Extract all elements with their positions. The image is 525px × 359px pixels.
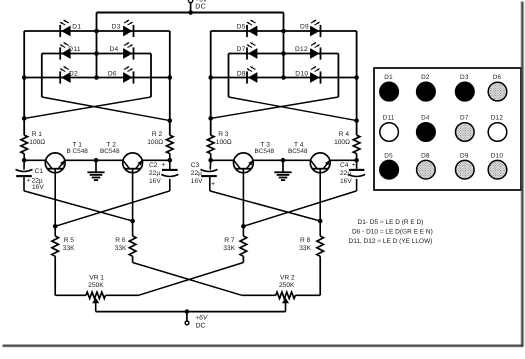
wire R7 to VR1 diagonal: [139, 263, 244, 296]
wire C4 to T3 base diagonal: [243, 191, 356, 226]
svg-text:D6: D6: [108, 70, 117, 77]
transistor T4 BC548: [288, 141, 330, 172]
wire T1 emitter to ground node: [65, 159, 123, 161]
capacitor C3 22u 16V: [191, 162, 218, 188]
LED D3: [112, 20, 134, 37]
resistor R8 33K: [299, 236, 323, 256]
svg-text:100Ω: 100Ω: [147, 139, 163, 146]
wire R3 bottom to main row: [210, 154, 212, 161]
legend LED dot D5: [380, 152, 399, 179]
svg-text:D6 - D10 = LE D(GR E E N): D6 - D10 = LE D(GR E E N): [352, 228, 433, 235]
wire D1-D3 row (left block row 1): [24, 30, 170, 32]
svg-text:100Ω: 100Ω: [216, 139, 232, 146]
junction top rail / DC terminal: [188, 10, 193, 15]
wire R6 bottom stub: [132, 256, 134, 262]
junction right bus row 3: [281, 75, 286, 80]
junction diagonal / right outer vertical: [168, 118, 173, 123]
wire R4 bottom to main row: [356, 154, 358, 161]
wire T4 to right node (right half): [330, 159, 357, 161]
frame right edge: [521, 2, 524, 347]
svg-text:R 6: R 6: [115, 237, 126, 244]
svg-text:+: +: [211, 181, 215, 188]
wire D8-D10 row (right block row 3): [211, 77, 357, 79]
svg-text:D11, D12 = LE D (YE LLOW): D11, D12 = LE D (YE LLOW): [349, 238, 433, 245]
LED D6: [108, 67, 134, 84]
svg-text:16V: 16V: [32, 184, 44, 191]
svg-text:D1: D1: [384, 74, 393, 81]
legend LED dot D3: [456, 74, 475, 101]
svg-text:D2: D2: [421, 74, 430, 81]
junction C3 diagonal / T4 base: [318, 219, 323, 224]
svg-text:D2: D2: [69, 70, 78, 77]
wire cross diagonal (right block) inner-right to outer-left: [211, 97, 339, 118]
svg-text:R 5: R 5: [64, 237, 75, 244]
svg-text:VR 1: VR 1: [89, 274, 104, 281]
wire R8 bottom to VR2 row: [319, 256, 321, 295]
junction left bus row 3: [94, 75, 99, 80]
svg-text:D9: D9: [300, 23, 309, 30]
svg-text:33K: 33K: [299, 245, 311, 252]
transistor T2 BC548: [100, 141, 143, 172]
svg-text:16V: 16V: [340, 178, 352, 185]
wire C3 bottom lead: [209, 176, 211, 191]
junction C4 diagonal / T3 base: [241, 224, 246, 229]
wire cross diagonal right-inner to left-outer: [24, 97, 151, 118]
svg-text:D1: D1: [72, 23, 81, 30]
wire left inner vertical (row2 left): [41, 54, 43, 98]
legend LED dot D7: [456, 115, 475, 142]
svg-text:100Ω: 100Ω: [334, 139, 350, 146]
wire R1 bottom to main row: [23, 154, 25, 161]
legend LED dot D11: [380, 115, 399, 142]
svg-text:250K: 250K: [88, 282, 104, 289]
junction left bus row 2: [94, 51, 99, 56]
ground symbol (left): [87, 160, 104, 180]
junction right bus row 2: [281, 51, 286, 56]
resistor R4 100 ohm: [334, 131, 360, 153]
potentiometer VR2 250K: [276, 274, 296, 311]
wire C2 bottom lead: [169, 179, 171, 191]
wire VR1 left lead: [55, 294, 86, 296]
wire right-block right outer vertical (row1 to R4): [356, 31, 358, 135]
junction C2 diagonal / T1 base: [53, 224, 58, 229]
junction R1 / C1 / T1 collector: [22, 158, 27, 163]
svg-text:BC548: BC548: [255, 148, 275, 155]
resistor R6 33K: [115, 236, 136, 256]
LED D8: [237, 67, 258, 84]
junction right bus row 1: [281, 29, 286, 34]
wire R2 bottom to main row: [169, 154, 171, 161]
junction diagonal / right-block outer-left: [208, 116, 213, 121]
junction right-block left outer / row 3: [208, 75, 213, 80]
legend LED dot D12: [488, 115, 507, 142]
svg-text:+6V: +6V: [195, 314, 208, 321]
svg-text:D9: D9: [460, 152, 469, 159]
junction R3 / C3 / T3 collector: [208, 158, 213, 163]
LED D5: [237, 20, 258, 37]
wire right block centre bus: [283, 13, 285, 78]
svg-text:D3: D3: [460, 74, 469, 81]
svg-text:22µ: 22µ: [340, 170, 351, 177]
wire T4 base lead down to R8: [319, 169, 321, 236]
junction left bus row 1: [94, 29, 99, 34]
svg-text:D12: D12: [295, 46, 308, 53]
svg-text:C1: C1: [35, 168, 44, 175]
legend LED dot D9: [456, 152, 475, 179]
svg-text:+: +: [352, 162, 356, 169]
svg-text:33K: 33K: [223, 245, 235, 252]
junction R2 / C2 / T2: [168, 158, 173, 163]
svg-text:D8: D8: [237, 70, 246, 77]
svg-text:22µ: 22µ: [149, 170, 160, 177]
svg-text:16V: 16V: [149, 178, 161, 185]
junction ground (right): [281, 158, 286, 163]
svg-text:D6: D6: [493, 74, 502, 81]
wire C1 top lead: [23, 160, 25, 169]
wire VR2 wiper to supply junction: [187, 311, 286, 313]
svg-text:R 4: R 4: [339, 131, 350, 138]
wire cross diagonal left-inner to right-outer: [42, 97, 170, 121]
wire T1 collector to left node: [24, 159, 46, 161]
svg-text:250K: 250K: [279, 282, 295, 289]
legend LED dot D8: [417, 152, 436, 179]
junction diagonal / right-block outer-right: [354, 118, 359, 123]
LED D11: [60, 43, 81, 60]
svg-text:D5: D5: [237, 23, 246, 30]
svg-text:C4: C4: [340, 162, 349, 169]
wire C2 to T1 base diagonal: [55, 191, 170, 226]
wire T3 base lead down to R7: [242, 169, 244, 236]
legend LED dot D1: [380, 74, 399, 101]
svg-text:D12: D12: [491, 115, 504, 122]
LED D4: [109, 43, 133, 60]
svg-text:D1- D5 = LE D (R E D): D1- D5 = LE D (R E D): [358, 219, 424, 226]
wire cross diagonal (right block) inner-left to outer-right: [229, 97, 357, 121]
resistor R7 33K: [223, 236, 246, 256]
wire R7 bottom stub: [242, 256, 244, 262]
svg-text:16V: 16V: [191, 178, 203, 185]
svg-text:R 3: R 3: [218, 131, 229, 138]
junction C1 diagonal / T2 base: [130, 219, 135, 224]
junction left outer / row 3: [22, 75, 27, 80]
svg-text:D7: D7: [460, 115, 469, 122]
svg-text:D10: D10: [491, 152, 504, 159]
svg-text:33K: 33K: [115, 245, 127, 252]
LED D2: [60, 67, 78, 84]
svg-text:R 8: R 8: [300, 237, 311, 244]
capacitor C1 22u 16V: [16, 168, 45, 191]
svg-text:D7: D7: [237, 46, 246, 53]
wire T3 emitter to ground node (right half): [253, 159, 311, 161]
wire C1 bottom lead: [23, 176, 25, 191]
wire R6 to VR2 diagonal: [133, 263, 242, 296]
svg-text:D10: D10: [295, 70, 308, 77]
wire D5-D9 row (right block row 1): [211, 30, 357, 32]
legend LED dot D2: [417, 74, 436, 101]
power terminal +6V DC (bottom): [185, 312, 208, 330]
svg-text:DC: DC: [196, 323, 206, 330]
svg-text:33K: 33K: [63, 245, 75, 252]
svg-text:D11: D11: [68, 46, 81, 53]
svg-text:D4: D4: [109, 46, 118, 53]
legend LED dot D6: [488, 74, 507, 101]
junction right outer / row 3: [168, 75, 173, 80]
resistor R2 100 ohm: [147, 131, 173, 153]
wire C4 bottom lead: [356, 179, 358, 191]
svg-text:D3: D3: [112, 23, 121, 30]
wire VR2 left lead: [242, 294, 276, 296]
wire C3 top lead: [209, 160, 212, 169]
junction right-block right outer / row 3: [354, 75, 359, 80]
LED D12: [295, 43, 321, 60]
wire right inner vertical (row2 right): [150, 54, 152, 98]
svg-text:R 2: R 2: [152, 131, 163, 138]
legend LED dot D10: [488, 152, 507, 179]
ground symbol (right): [274, 160, 291, 180]
capacitor C4 22u 16V: [340, 162, 365, 185]
frame bottom edge: [3, 345, 524, 347]
legend LED dot D4: [417, 115, 436, 142]
transistor T3 BC548: [234, 141, 275, 172]
svg-text:BC548: BC548: [100, 148, 120, 155]
wire D11-D4 row (left block row 2): [42, 53, 151, 55]
wire T3 collector to left node (right half): [211, 159, 234, 161]
svg-text:DC: DC: [195, 4, 206, 11]
wire C2 top lead: [169, 160, 171, 169]
resistor R3 100 ohm: [207, 131, 231, 153]
LED D10: [295, 67, 320, 84]
svg-text:VR 2: VR 2: [280, 274, 295, 281]
svg-text:D4: D4: [421, 115, 430, 122]
svg-text:+: +: [161, 162, 165, 169]
wire D7-D12 row (right block row 2): [229, 53, 339, 55]
wire T2 to right node: [142, 159, 170, 161]
resistor R1 100 ohm: [21, 131, 45, 153]
wire right-block right inner vertical: [337, 54, 339, 98]
wire C3 to T4 base diagonal: [210, 191, 320, 221]
wire left block centre bus: [96, 13, 98, 78]
LED D1: [60, 20, 81, 37]
svg-text:100Ω: 100Ω: [29, 139, 45, 146]
wire T2 base lead down to R6: [132, 169, 134, 236]
svg-text:R 7: R 7: [224, 237, 235, 244]
wire T1 base lead down to R5: [54, 169, 56, 236]
junction wiper bus / +6V terminal: [185, 309, 190, 314]
wire C1 to T2 base diagonal: [24, 191, 133, 221]
wire top supply rail: [97, 12, 284, 14]
junction diagonal / left outer vertical: [22, 116, 27, 121]
svg-text:B C548: B C548: [67, 148, 89, 155]
svg-text:C3: C3: [191, 162, 200, 169]
svg-text:D5: D5: [384, 152, 393, 159]
svg-text:D8: D8: [421, 152, 430, 159]
svg-text:R 1: R 1: [32, 131, 43, 138]
wire D2-D6 row (left block row 3): [24, 77, 170, 79]
wire R5 bottom to VR1 row: [54, 256, 56, 295]
LED D7: [237, 43, 258, 60]
potentiometer VR1 250K: [86, 274, 106, 311]
LED D9: [300, 20, 321, 37]
svg-text:C2: C2: [149, 162, 158, 169]
svg-text:BC548: BC548: [288, 148, 308, 155]
resistor R5 33K: [52, 236, 75, 256]
wire VR2 right lead: [295, 294, 320, 296]
wire C4 top lead: [356, 160, 358, 169]
transistor T1 BC548: [45, 141, 88, 172]
wire right outer vertical (row1 to R2): [169, 31, 171, 135]
wire VR1 wiper to supply junction: [96, 311, 187, 313]
svg-text:+: +: [26, 178, 30, 185]
wire left outer vertical (rows to R1): [23, 31, 25, 135]
legend box: [374, 68, 521, 190]
svg-text:D11: D11: [383, 115, 395, 122]
junction ground (left): [94, 158, 99, 163]
wire right-block left outer vertical (rows to R3): [210, 31, 212, 135]
power terminal DC (top, clipped): [189, 0, 208, 13]
wire right-block left inner vertical: [228, 54, 230, 98]
svg-text:22µ: 22µ: [191, 170, 202, 177]
wire VR1 right lead: [106, 294, 139, 296]
junction R4 / C4 / T4: [354, 158, 359, 163]
capacitor C2 22u 16V: [149, 162, 178, 185]
